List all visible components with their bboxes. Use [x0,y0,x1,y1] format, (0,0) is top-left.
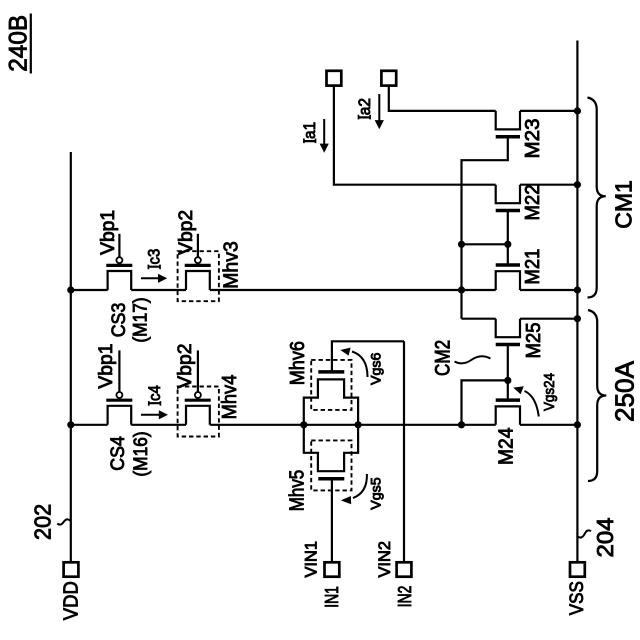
wire M22 gate lead [507,211,509,245]
svg-text:VSS: VSS [567,581,588,615]
wire row1 rail mid [131,289,186,291]
dashed box Mhv4 [178,387,219,437]
node M22/VSS rail junction [574,181,581,188]
wire row2 rail mid2 [210,424,496,426]
svg-text:VIN1: VIN1 [302,541,321,578]
node VDD/CS3 junction [67,286,74,293]
svg-text:M23: M23 [522,119,544,159]
wire Mhv5 gate lead / VIN1 line [331,479,333,563]
wire row1 rail left [71,289,108,291]
node row2/VSS rail junction [574,421,581,428]
wire VDD rail [70,152,72,562]
node VDD/CS4 junction [67,421,74,428]
gate bar M22 [496,209,520,213]
terminal IN1 [325,562,340,576]
svg-text:Vbp1: Vbp1 [96,344,117,389]
wire M24 drain to rail [520,424,577,426]
terminal IN2 [397,562,412,576]
transistor M25 [496,319,520,338]
gate bar Mhv3 [185,264,211,267]
bubble CS3 gate [116,257,122,263]
gate bar Mhv6 [318,370,344,374]
wire M23 gate route [462,137,508,319]
terminal VDD [64,562,79,576]
svg-text:M22: M22 [522,185,544,221]
wire M22 drain to rail [520,184,577,186]
wire M23 drain to rail [520,110,577,112]
wire CS3 gate lead [118,234,120,257]
svg-text:IN1: IN1 [322,586,342,608]
node CM2 loop / row2 junction [458,421,465,428]
wire M25 drain to rail [520,318,577,320]
node Mhv pair right junction [355,421,362,428]
wire VIN2 line [403,341,405,562]
wire VSS rail [576,41,578,563]
wire M21 gate lead [507,244,509,265]
svg-text:Vgs6: Vgs6 [368,352,384,385]
transistor Mhv6 [304,379,358,424]
gate bar Mhv5 [318,477,344,481]
bubble CS4 gate [116,392,122,398]
svg-text:Mhv6: Mhv6 [287,341,309,385]
wire Mhv6 gate lead [332,341,404,372]
gate bar M25 [496,343,520,347]
svg-text:Mhv4: Mhv4 [219,375,241,420]
wire M25 row [462,318,496,320]
svg-text:IN2: IN2 [395,586,415,608]
wire Ia2 [389,86,496,111]
transistor M21 [496,271,520,290]
svg-text:(M17): (M17) [130,297,151,342]
wire CS4 gate lead [118,350,120,392]
wire Mhv4 gate lead [197,350,199,392]
node row1/gate-column junction [458,286,465,293]
wire M21 drain to rail [520,289,577,291]
arrow Ic4 [141,414,160,416]
dashed box Mhv6 [311,360,351,410]
squiggle CM2 leader [455,356,491,363]
gate bar CS4 [106,399,132,402]
gate bar CS3 [106,264,132,267]
bubble Mhv3 gate [195,257,201,263]
transistor M22 [496,185,520,204]
transistor CS4 (M16) [108,406,132,425]
node M23/VSS rail junction [574,107,581,114]
transistor Mhv5 [304,425,358,471]
wire Mhv3 gate lead [197,234,199,257]
title 240B [5,14,33,74]
svg-text:CM2: CM2 [432,340,455,376]
arrow Vgs5 arc [353,474,367,498]
terminal Ia1 [327,71,342,86]
svg-text:M21: M21 [522,249,544,285]
transistor Mhv4 [186,406,210,425]
terminal Ia2 [381,71,396,86]
svg-text:Vgs5: Vgs5 [368,477,384,510]
wire Ia1 [334,86,496,185]
svg-text:Mhv5: Mhv5 [287,470,309,512]
svg-text:Vbp2: Vbp2 [176,210,197,255]
svg-text:Mhv3: Mhv3 [220,241,242,289]
arrow Vgs24 arc [525,391,539,417]
arrow Ic3 [141,277,160,279]
node M24/M25 gate junction [504,377,511,384]
wire row2 rail mid [131,424,186,426]
bubble Mhv4 gate [195,392,201,398]
node row1/VSS rail junction [574,286,581,293]
node Mhv pair left junction [300,421,307,428]
svg-text:CS4: CS4 [108,436,129,471]
squiggle 202 leader [57,519,70,524]
wire row1 rail right [210,289,496,291]
gate bar M21 [496,263,520,267]
dashed box Mhv3 [178,251,219,301]
terminal VSS [570,562,585,576]
wire M25 gate lead [507,345,509,401]
svg-text:M24: M24 [496,428,518,466]
node gate tie right [504,241,511,248]
svg-text:M25: M25 [523,323,545,359]
gate bar M23 [496,135,520,139]
brace CM1 [588,98,606,298]
dashed box Mhv5 [311,440,351,490]
gate bar M24 [496,398,520,402]
svg-text:240B: 240B [5,15,33,72]
squiggle 204 leader [578,530,591,537]
svg-text:Vbp2: Vbp2 [175,344,196,389]
transistor M24 [496,406,520,424]
wire row2 rail left [71,424,108,426]
svg-text:250A: 250A [610,360,640,422]
node M25/VSS rail junction [574,315,581,322]
svg-text:CS3: CS3 [109,303,130,338]
transistor M23 [496,111,520,129]
transistor Mhv3 [186,271,210,290]
svg-text:Vgs24: Vgs24 [541,373,558,411]
gate bar Mhv4 [185,399,211,402]
svg-text:204: 204 [592,517,618,557]
svg-text:VIN2: VIN2 [375,541,394,578]
wire M21-M22 gate tie [462,243,508,245]
node gate tie left [458,241,465,248]
svg-text:CM1: CM1 [611,180,637,229]
arrow Vgs6 arc [352,352,368,378]
arrow Ia2 [378,94,380,121]
wire CM2 diode loop [462,380,508,424]
arrow Ia1 [323,119,325,145]
svg-text:(M16): (M16) [131,431,152,476]
svg-text:Vbp1: Vbp1 [98,210,119,255]
svg-text:202: 202 [30,504,56,540]
brace 250A [588,310,606,481]
svg-text:VDD: VDD [61,581,83,620]
transistor CS3 (M17) [108,271,132,290]
